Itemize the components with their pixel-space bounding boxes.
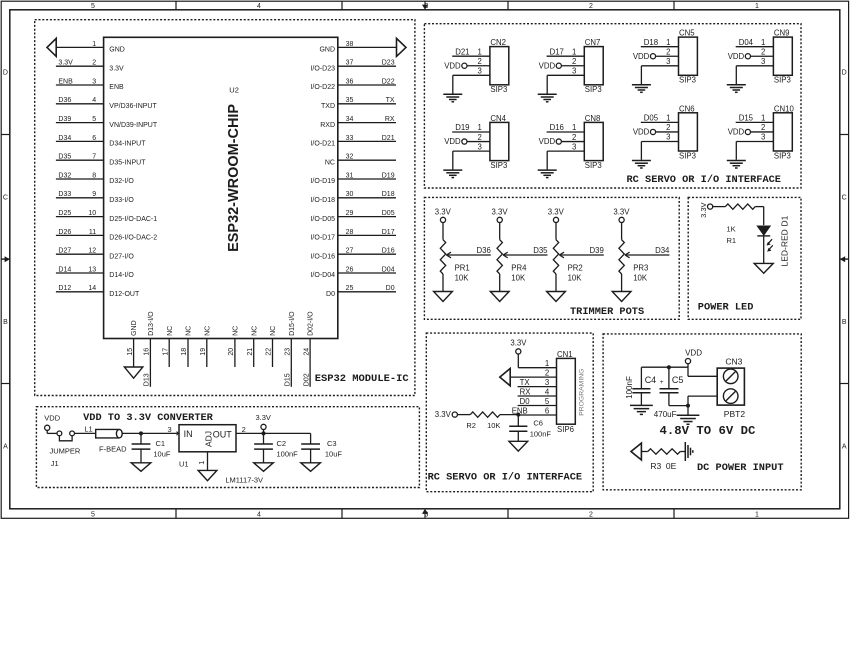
- svg-text:A: A: [842, 443, 847, 450]
- power node 3.3V at R2: [435, 410, 458, 419]
- svg-text:NC: NC: [186, 326, 193, 336]
- connector CN7 SIP3 body: [584, 47, 603, 85]
- wire CN10 pin 2 VDD: [751, 131, 774, 133]
- net label D19: [382, 172, 395, 179]
- wire CN7 pin 3 to ground: [547, 75, 584, 93]
- svg-text:ENB: ENB: [58, 78, 73, 85]
- svg-text:3.3V: 3.3V: [548, 208, 565, 217]
- svg-text:D04: D04: [739, 38, 754, 47]
- svg-text:10uF: 10uF: [325, 449, 343, 458]
- svg-text:C4: C4: [645, 375, 657, 385]
- svg-text:A: A: [3, 443, 8, 450]
- svg-text:3: 3: [761, 57, 765, 66]
- svg-text:NC: NC: [251, 326, 258, 336]
- junction at C5: [667, 365, 671, 369]
- ground at PR1 (triangle): [434, 292, 453, 302]
- svg-text:1: 1: [478, 47, 482, 56]
- pin number 3 of CN9: [761, 57, 765, 66]
- label PR3: [633, 264, 648, 273]
- svg-text:C5: C5: [672, 375, 684, 385]
- net label D22: [382, 78, 395, 85]
- ferrite bead L1: [96, 429, 123, 438]
- pin number 1: [92, 41, 96, 48]
- svg-text:PR3: PR3: [633, 264, 648, 273]
- svg-text:D39: D39: [58, 116, 71, 123]
- svg-text:GND: GND: [319, 47, 335, 54]
- svg-text:I/O-D16: I/O-D16: [310, 253, 335, 260]
- label R1: [727, 236, 737, 245]
- svg-text:VDD: VDD: [44, 414, 60, 423]
- wire CN10 pin 3 to ground: [736, 142, 773, 160]
- svg-text:2: 2: [666, 123, 670, 132]
- pin name NC: [270, 326, 277, 336]
- svg-text:21: 21: [247, 348, 254, 356]
- IC U2 name ESP32-WROOM-CHIP: [226, 104, 242, 252]
- connector CN4 designator: [490, 114, 506, 123]
- wire CN1 pin 6 net ENB: [518, 414, 556, 416]
- wire left pin 9 net D33: [56, 197, 104, 199]
- wire VDD to J1: [47, 430, 57, 433]
- pin name D34-INPUT: [109, 141, 146, 148]
- svg-text:16: 16: [144, 348, 151, 356]
- net label D35: [58, 154, 71, 161]
- svg-text:D34: D34: [655, 246, 670, 255]
- ground at PR4 (triangle): [490, 292, 509, 302]
- svg-text:3.3V: 3.3V: [58, 60, 73, 67]
- wire right pin 28 net D17: [338, 234, 396, 236]
- pin number 3 of CN5: [666, 57, 670, 66]
- capacitor C6 100nF: [509, 415, 527, 442]
- pin number 6 of CN1: [545, 406, 549, 415]
- svg-text:1: 1: [92, 41, 96, 48]
- svg-text:D23: D23: [382, 60, 395, 67]
- pin number 1 of CN1: [545, 359, 549, 368]
- svg-text:D05: D05: [382, 210, 395, 217]
- wire CN1 pin 5 net D0: [518, 405, 557, 407]
- ground at C3 (triangle): [301, 463, 321, 472]
- svg-text:LED-RED: LED-RED: [779, 229, 789, 266]
- svg-text:3.3V: 3.3V: [435, 410, 452, 419]
- svg-text:22: 22: [266, 348, 273, 356]
- pin number 2 of CN1: [545, 368, 549, 377]
- label PROGRAMING: [578, 369, 585, 416]
- pin number 1 of CN10: [761, 114, 765, 123]
- svg-text:20: 20: [228, 348, 235, 356]
- ground at PR2 (triangle): [547, 292, 566, 302]
- wire right pin 31 net D19: [338, 178, 396, 180]
- svg-text:SIP3: SIP3: [774, 76, 791, 85]
- pin number 31: [346, 172, 354, 179]
- junction at C1: [139, 431, 143, 435]
- connector CN2 designator: [490, 38, 506, 47]
- wire R3 to ground: [680, 451, 685, 453]
- wire CN6 pin 1 net D05: [641, 121, 679, 123]
- pin number 2 of CN9: [761, 47, 765, 56]
- wire bottom pin 24: [309, 339, 311, 387]
- arrow pin 38 GND (points right): [397, 38, 407, 56]
- svg-text:CN6: CN6: [679, 104, 695, 113]
- svg-text:3.3V: 3.3V: [510, 338, 527, 347]
- label PR1: [455, 264, 470, 273]
- net label D33: [58, 191, 71, 198]
- svg-text:L1: L1: [84, 424, 92, 433]
- wire right pin 35 net TX: [338, 103, 396, 105]
- svg-text:24: 24: [303, 348, 310, 356]
- arrow CN1 pin 2 (points left): [500, 368, 510, 385]
- svg-text:31: 31: [346, 172, 354, 179]
- value 1K of R1: [727, 224, 736, 233]
- wire bottom pin 16: [149, 339, 151, 387]
- pin name NC: [186, 326, 193, 336]
- wire bottom pin 17: [168, 339, 170, 368]
- pin number 3 of CN1: [545, 378, 549, 387]
- net label D27: [58, 248, 71, 255]
- svg-text:6: 6: [92, 135, 96, 142]
- connector CN5 value SIP3: [679, 76, 696, 85]
- wire CN1 pin 4 net RX: [518, 395, 557, 397]
- svg-text:D35: D35: [58, 154, 71, 161]
- power node VDD at CN5 pin 2: [633, 52, 656, 61]
- resistor R1 1K: [725, 204, 755, 209]
- power node VDD at CN2 pin 2: [444, 61, 467, 70]
- svg-text:9: 9: [92, 191, 96, 198]
- power node 3.3V at PR2: [548, 208, 565, 223]
- svg-text:D14: D14: [58, 266, 71, 273]
- net label D39: [589, 246, 603, 255]
- dashed block ESP32 module: [35, 20, 415, 396]
- label R2: [466, 421, 476, 430]
- svg-text:NC: NC: [270, 326, 277, 336]
- svg-text:18: 18: [181, 348, 188, 356]
- dashed block RC servo interface (top): [424, 24, 801, 188]
- svg-text:SIP3: SIP3: [774, 151, 791, 160]
- svg-text:3: 3: [666, 133, 670, 142]
- resistor R2 10K: [470, 412, 500, 417]
- svg-text:3: 3: [92, 78, 96, 85]
- pin number 1 of U1: [197, 461, 206, 465]
- pin number 2 of CN7: [572, 57, 576, 66]
- svg-text:VDD: VDD: [633, 52, 650, 61]
- wire J1 to L1: [75, 432, 96, 434]
- svg-text:DC POWER INPUT: DC POWER INPUT: [697, 462, 784, 474]
- pin number 12: [88, 248, 96, 255]
- title ESP32 MODULE-IC: [315, 373, 409, 385]
- pin number 3 of CN4: [478, 142, 482, 151]
- svg-text:2: 2: [242, 425, 246, 434]
- svg-text:32: 32: [346, 154, 354, 161]
- svg-text:RXD: RXD: [320, 122, 335, 129]
- power node 3.3V output: [256, 413, 271, 433]
- net label D0: [520, 397, 531, 406]
- wire CN4 pin 3 to ground: [453, 151, 490, 169]
- pin number 3 of CN10: [761, 133, 765, 142]
- wire CN5 pin 1 net D18: [641, 46, 679, 48]
- pin number 27: [346, 248, 354, 255]
- pin number 38: [346, 41, 354, 48]
- svg-text:TX: TX: [386, 97, 395, 104]
- svg-text:SIP3: SIP3: [490, 161, 507, 170]
- svg-text:23: 23: [285, 348, 292, 356]
- pin number 2 of CN6: [666, 123, 670, 132]
- dashed block VDD to 3.3V converter: [36, 407, 419, 488]
- wire U1 ADJ to ground: [207, 452, 209, 471]
- connector CN10 value SIP3: [774, 151, 791, 160]
- pin number 37: [346, 60, 354, 67]
- net label D12: [58, 285, 71, 292]
- dashed block DC power input: [603, 334, 801, 490]
- power node VDD at CN4 pin 2: [444, 137, 467, 146]
- connector CN2 SIP3 body: [490, 47, 509, 85]
- label C1: [156, 439, 166, 448]
- net label D17: [382, 229, 395, 236]
- potentiometer PR3 10K: [619, 240, 630, 274]
- svg-text:VN/D39-INPUT: VN/D39-INPUT: [109, 122, 158, 129]
- pin name I/O-D18: [310, 197, 335, 204]
- svg-text:VDD: VDD: [539, 61, 556, 70]
- net label D04: [739, 38, 754, 47]
- wire CN2 pin 2 VDD: [467, 65, 490, 67]
- wire CN5 pin 2 VDD: [656, 55, 679, 57]
- svg-text:2: 2: [572, 133, 576, 142]
- wire L1 to U1 IN: [122, 432, 176, 434]
- net label D18: [644, 38, 658, 47]
- net label D23: [382, 60, 395, 67]
- net label D35: [533, 246, 548, 255]
- svg-text:SIP3: SIP3: [585, 85, 602, 94]
- svg-text:D36: D36: [58, 97, 71, 104]
- net label D15: [739, 114, 754, 123]
- pin name D33-I/O: [109, 197, 134, 204]
- wire CN9 pin 3 to ground: [736, 66, 773, 84]
- svg-text:VDD TO 3.3V CONVERTER: VDD TO 3.3V CONVERTER: [83, 412, 214, 424]
- pin number 29: [346, 210, 354, 217]
- svg-text:100nF: 100nF: [625, 376, 634, 399]
- pin number 13: [88, 266, 96, 273]
- net label D18: [382, 191, 395, 198]
- pin number 34: [346, 116, 354, 123]
- pin number 7: [92, 154, 96, 161]
- svg-text:I/O-D04: I/O-D04: [310, 272, 335, 279]
- label U1: [179, 460, 189, 469]
- svg-text:TX: TX: [520, 378, 531, 387]
- svg-text:36: 36: [346, 78, 354, 85]
- wire bottom pin 18: [187, 339, 189, 368]
- svg-text:C: C: [842, 194, 847, 201]
- value 10K of PR1: [455, 273, 470, 282]
- pin number 20: [228, 348, 235, 356]
- power node 3.3V at CN1: [510, 338, 527, 354]
- pin name NC: [251, 326, 258, 336]
- svg-text:10K: 10K: [633, 273, 648, 282]
- label PR4: [511, 264, 527, 273]
- svg-text:2: 2: [761, 47, 765, 56]
- label C3: [327, 439, 337, 448]
- svg-text:B: B: [3, 319, 8, 326]
- ground at CN2: [443, 94, 462, 102]
- svg-text:0E: 0E: [666, 461, 677, 471]
- wire wiper net D35: [503, 254, 547, 256]
- svg-text:1: 1: [761, 38, 765, 47]
- pin name I/O-D22: [310, 84, 335, 91]
- connector CN9 designator: [774, 29, 790, 38]
- pin name I/O-D17: [310, 235, 335, 242]
- svg-text:D35: D35: [533, 246, 548, 255]
- net label D15: [285, 373, 292, 386]
- svg-text:34: 34: [346, 116, 354, 123]
- svg-text:1: 1: [197, 461, 206, 465]
- svg-text:RX: RX: [520, 387, 532, 396]
- pin number 3 of CN2: [478, 67, 482, 76]
- ground at CN5: [632, 85, 651, 93]
- junction at C2: [262, 431, 266, 435]
- svg-text:3.3V: 3.3V: [613, 208, 630, 217]
- capacitor C3 10uF: [301, 433, 320, 462]
- pin number 15: [127, 348, 134, 356]
- net label D32: [58, 172, 71, 179]
- svg-text:D02: D02: [303, 373, 310, 386]
- svg-text:28: 28: [346, 229, 354, 236]
- connector CN2 value SIP3: [490, 85, 507, 94]
- ground at C4: [630, 405, 653, 414]
- svg-text:3.3V: 3.3V: [699, 202, 708, 217]
- pin number 2 of CN4: [478, 133, 482, 142]
- svg-text:R1: R1: [727, 236, 737, 245]
- connector CN8 value SIP3: [585, 161, 602, 170]
- svg-text:470uF: 470uF: [654, 410, 677, 419]
- svg-text:GND: GND: [131, 320, 138, 336]
- svg-text:TRIMMER POTS: TRIMMER POTS: [570, 306, 644, 318]
- pin number 2 of CN10: [761, 123, 765, 132]
- svg-text:D15-I/O: D15-I/O: [289, 311, 296, 336]
- svg-text:NC: NC: [204, 326, 211, 336]
- ground at CN3: [677, 415, 700, 424]
- net label TX: [386, 97, 395, 104]
- LED D1 (red): [757, 226, 773, 252]
- pin name I/O-D05: [310, 216, 335, 223]
- ground at C2 (triangle): [254, 463, 274, 472]
- svg-text:10: 10: [88, 210, 96, 217]
- wire bottom pin 21: [253, 339, 255, 368]
- pin number 2: [92, 60, 96, 67]
- svg-text:VDD: VDD: [444, 137, 461, 146]
- power node VDD at CN3: [685, 348, 702, 363]
- wire CN10 pin 1 net D15: [736, 121, 774, 123]
- ground pin 15 (triangle): [124, 367, 143, 378]
- pin number 3 of CN8: [572, 142, 576, 151]
- net label D14: [58, 266, 71, 273]
- ground at C6 (triangle): [509, 441, 528, 451]
- pin number 5 of CN1: [545, 397, 550, 406]
- svg-text:PROGRAMING: PROGRAMING: [578, 369, 585, 416]
- pin number 1 of CN9: [761, 38, 765, 47]
- svg-text:D12: D12: [58, 285, 71, 292]
- pin number 2 of CN5: [666, 47, 670, 56]
- arrow at R3 (points left): [631, 443, 641, 460]
- svg-text:D17: D17: [550, 47, 564, 56]
- connector CN8 SIP3 body: [584, 122, 603, 160]
- svg-text:1: 1: [478, 123, 482, 132]
- value LM1117-3V: [225, 476, 263, 485]
- svg-text:2: 2: [478, 133, 482, 142]
- IC U2 reference designator: [229, 86, 239, 95]
- svg-text:2: 2: [589, 511, 593, 518]
- svg-text:PR1: PR1: [455, 264, 470, 273]
- pin name D27-I/O: [109, 253, 134, 260]
- net label D17: [550, 47, 564, 56]
- label R3: [650, 461, 661, 471]
- wire 3.3V to R1: [713, 206, 726, 208]
- pin number 2 of CN8: [572, 133, 576, 142]
- svg-text:4: 4: [257, 511, 261, 518]
- svg-text:2: 2: [666, 47, 670, 56]
- net label 3.3V: [58, 60, 73, 67]
- connector CN3 designator: [725, 356, 742, 366]
- label J1: [51, 459, 59, 468]
- svg-text:1: 1: [755, 3, 759, 10]
- svg-text:D18: D18: [382, 191, 395, 198]
- pin number 28: [346, 229, 354, 236]
- wire right pin 36 net D22: [338, 84, 396, 86]
- svg-text:10K: 10K: [487, 421, 500, 430]
- svg-text:SIP3: SIP3: [679, 76, 696, 85]
- pin number 33: [346, 135, 354, 142]
- value 10K of PR2: [568, 273, 583, 282]
- wire left pin 13 net D14: [56, 272, 104, 274]
- svg-text:C3: C3: [327, 439, 337, 448]
- power node 3.3V at R1: [699, 202, 713, 217]
- wire wiper net D39: [559, 254, 603, 256]
- svg-text:D27: D27: [58, 248, 71, 255]
- svg-text:U1: U1: [179, 460, 189, 469]
- pin name 3.3V: [109, 65, 124, 72]
- value 0E of R3: [666, 461, 677, 471]
- svg-text:D17: D17: [382, 229, 395, 236]
- net label D21: [382, 135, 395, 142]
- svg-text:ESP32-WROOM-CHIP: ESP32-WROOM-CHIP: [226, 104, 242, 252]
- svg-text:VDD: VDD: [728, 128, 745, 137]
- wire CN1 pin 3 net TX: [518, 386, 557, 388]
- wire right pin 29 net D05: [338, 216, 396, 218]
- pin number 25: [346, 285, 354, 292]
- connector CN3 PBT2 body: [717, 368, 744, 405]
- pin number 26: [346, 266, 354, 273]
- connector CN8 designator: [585, 114, 601, 123]
- wire CN3 pin 2 to ground rail: [688, 396, 717, 406]
- svg-text:37: 37: [346, 60, 354, 67]
- svg-text:F-BEAD: F-BEAD: [99, 445, 127, 454]
- svg-text:2: 2: [478, 57, 482, 66]
- pin number 35: [346, 97, 354, 104]
- pin number 5: [92, 116, 96, 123]
- svg-text:11: 11: [89, 229, 96, 236]
- wire CN7 pin 2 VDD: [561, 65, 584, 67]
- svg-text:D0: D0: [520, 397, 531, 406]
- label JUMPER: [50, 447, 81, 456]
- svg-text:D27-I/O: D27-I/O: [109, 253, 134, 260]
- svg-text:29: 29: [346, 210, 354, 217]
- connector CN1 value SIP6: [557, 425, 574, 434]
- pin name VN/D39-INPUT: [109, 122, 158, 129]
- svg-text:RC SERVO OR I/O INTERFACE: RC SERVO OR I/O INTERFACE: [428, 471, 582, 483]
- svg-text:IN: IN: [184, 429, 193, 439]
- net label D02: [303, 373, 310, 386]
- net label ENB: [58, 78, 73, 85]
- wire CN6 pin 3 to ground: [641, 142, 678, 160]
- svg-text:3: 3: [478, 142, 482, 151]
- pin number 3 of CN7: [572, 67, 576, 76]
- svg-text:2: 2: [572, 57, 576, 66]
- pin name NC: [167, 326, 174, 336]
